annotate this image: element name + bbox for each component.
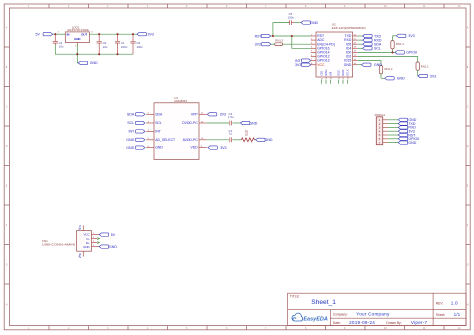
svg-text:AMG8833: AMG8833 (174, 99, 187, 103)
svg-text:MH2: MH2 (79, 252, 82, 258)
svg-text:MOSI: MOSI (342, 69, 345, 75)
net flag GPIO0 (PROG pin6) (398, 137, 419, 141)
net flag INT (GPIO13) (295, 59, 311, 63)
svg-text:GND: GND (249, 121, 257, 125)
svg-text:GND: GND (126, 146, 134, 150)
connector CN1 USB-CONN (42, 224, 100, 258)
svg-text:3V3: 3V3 (255, 43, 261, 47)
power flag 3V3 (LDO output) (137, 33, 154, 37)
capacitor C2 (230, 137, 232, 142)
svg-text:USB-CONN-AMINI: USB-CONN-AMINI (42, 243, 76, 247)
svg-text:3V3: 3V3 (148, 33, 154, 37)
wire C2 to R1 (232, 139, 241, 141)
junction dots output bus (98, 33, 134, 35)
wire IO15 net (358, 61, 381, 66)
value label C6 10u (103, 41, 108, 49)
svg-text:10u: 10u (103, 45, 108, 49)
svg-text:Sheet_1: Sheet_1 (311, 299, 336, 306)
svg-text:AVDD-PC: AVDD-PC (183, 138, 199, 142)
svg-text:VDD: VDD (191, 146, 199, 150)
value label C3 1.5u (228, 112, 234, 119)
svg-text:1/1: 1/1 (454, 312, 461, 317)
net flag RST (255, 34, 271, 38)
wire RST net (271, 23, 311, 49)
svg-text:100n: 100n (121, 45, 128, 49)
svg-text:GPIO0: GPIO0 (406, 51, 417, 55)
power flag 3V3 (PROG pin4) (398, 130, 415, 134)
svg-text:5V: 5V (36, 33, 41, 37)
svg-text:SCLK: SCLK (347, 69, 350, 76)
ground flag GND (PROG pin7) (398, 141, 417, 145)
svg-text:ESP-12F(ESP8266MOD): ESP-12F(ESP8266MOD) (332, 26, 366, 30)
svg-text:RN1.2: RN1.2 (385, 67, 393, 71)
svg-text:SCL: SCL (374, 47, 381, 51)
wire DVDD-PC net (207, 122, 229, 124)
svg-text:GND: GND (74, 37, 80, 41)
svg-text:G: G (467, 264, 469, 266)
svg-text:IO10: IO10 (338, 70, 341, 76)
ground flag GND (ESP) (358, 63, 383, 67)
svg-text:RN1.4: RN1.4 (396, 42, 404, 46)
svg-text:GND: GND (126, 138, 134, 142)
wire IO0 net (358, 49, 395, 53)
wire LDO GND down to ground (76, 44, 79, 63)
net flag INT (U1) (128, 130, 145, 134)
value label R1 20 (245, 130, 249, 137)
svg-text:GND: GND (109, 245, 117, 249)
net flag TXD (PROG pin2) (398, 122, 416, 126)
svg-text:2019-09-24: 2019-09-24 (349, 320, 375, 325)
junction IO0 (391, 51, 393, 53)
wire C5 to ground (295, 22, 301, 24)
svg-text:3V3: 3V3 (295, 63, 301, 67)
ground flag GND (AD_SELECT) (126, 138, 145, 142)
svg-text:3V3: 3V3 (430, 74, 436, 78)
capacitor C8 (130, 34, 135, 54)
svg-text:1.0: 1.0 (451, 301, 458, 306)
net flag SDA (U1) (127, 113, 145, 117)
power flag 3V3 (IO0 pull-up) (393, 34, 415, 38)
value label C4 10u (59, 41, 64, 49)
ground flag GND (IO15 pull-down) (385, 77, 405, 81)
ground flag GND (USB) (99, 245, 117, 249)
header PROG1 (375, 113, 388, 145)
ground flag GND (DVDD) (240, 121, 257, 125)
resistor RN1.4 (391, 36, 394, 49)
wire 5V to LDO IN (53, 33, 66, 35)
svg-text:Date:: Date: (333, 321, 341, 325)
wire bottom ground bus (55, 45, 133, 54)
resistor R1 (241, 138, 254, 142)
svg-text:IN: IN (67, 32, 70, 36)
power flag 5V (LDO input) (36, 33, 53, 37)
svg-text:CS0: CS0 (321, 70, 324, 75)
net flag RXD (358, 38, 382, 42)
junction at C4 (54, 33, 56, 35)
junction RST/GPIO16 (291, 35, 293, 37)
ground flag GND (C5) (301, 21, 319, 25)
svg-text:1u: 1u (229, 132, 233, 136)
power flag 3V3 (VCC) (295, 63, 311, 67)
svg-text:OUT: OUT (81, 32, 87, 36)
net flag GPIO0 (395, 51, 417, 55)
svg-text:IO9: IO9 (330, 71, 333, 76)
svg-text:VPP: VPP (191, 112, 199, 116)
svg-text:AD_SELECT: AD_SELECT (155, 138, 175, 142)
value label C8 100n (136, 41, 143, 49)
svg-text:Viper-7: Viper-7 (411, 320, 428, 325)
svg-text:3V3: 3V3 (408, 34, 414, 38)
svg-text:GND: GND (374, 63, 382, 67)
svg-text:GND: GND (155, 146, 163, 150)
wire C3 to ground (232, 122, 240, 124)
wire LDO OUT to 3V3 (89, 33, 137, 35)
power flag 3V3 (EN pull-up) (255, 43, 271, 47)
svg-text:RN1.1: RN1.1 (421, 65, 429, 69)
svg-text:1.5u: 1.5u (228, 115, 234, 119)
svg-text:7: 7 (379, 141, 381, 145)
resistor RN1.2 (379, 66, 384, 79)
svg-text:TITLE:: TITLE: (290, 294, 300, 298)
wire AVDD-PC net (207, 139, 229, 141)
svg-text:REV:: REV: (436, 302, 444, 306)
svg-text:3V3: 3V3 (220, 113, 226, 117)
svg-text:100n: 100n (136, 45, 143, 49)
svg-text:GND: GND (265, 138, 273, 142)
wire IO2 net (358, 57, 418, 62)
value label C2 1u (229, 129, 233, 136)
svg-text:GND: GND (90, 61, 98, 65)
net flag RXD (PROG pin3) (398, 126, 416, 130)
power flag 3V3 (IO2 pull-up) (418, 74, 436, 78)
power flag 3V3 (VDD) (208, 146, 227, 150)
resistor RN1.3 (271, 43, 311, 46)
module U2 ESP-12F (311, 22, 366, 83)
svg-text:INT: INT (128, 130, 135, 134)
junction RST/C5 (272, 35, 274, 37)
svg-text:GND: GND (344, 63, 352, 67)
svg-text:G: G (6, 264, 8, 266)
net flag RST (PROG pin5) (398, 133, 416, 137)
svg-text:GND: GND (397, 77, 405, 81)
svg-text:SCL: SCL (155, 121, 162, 125)
capacitor C1 (115, 34, 120, 54)
ground flag GND (LDO) (78, 61, 98, 65)
svg-text:SDA: SDA (155, 112, 163, 116)
svg-text:Your Company: Your Company (356, 311, 390, 316)
net flag SCL (IO4) (358, 47, 381, 51)
svg-text:Sheet:: Sheet: (436, 313, 446, 317)
ground flag GND (AVDD) (256, 138, 273, 142)
svg-text:SCL: SCL (127, 121, 134, 125)
svg-text:VCC: VCC (317, 63, 325, 67)
svg-text:MISO: MISO (325, 70, 328, 76)
resistor RN1.1 (416, 62, 419, 76)
title block (288, 293, 466, 325)
svg-text:MH1: MH1 (79, 224, 82, 230)
svg-text:Company:: Company: (333, 312, 348, 316)
svg-text:DVDD-PC: DVDD-PC (182, 121, 198, 125)
svg-text:INT: INT (155, 130, 160, 134)
ground flag GND (PROG pin1) (398, 118, 417, 122)
wire PROG1 pins to flags (388, 120, 398, 143)
power flag 5V (USB VCC) (99, 233, 116, 237)
net flag SCL (U1) (127, 121, 145, 125)
net flag SDA (IO5) (358, 43, 382, 47)
capacitor C6 (97, 34, 102, 54)
svg-text:RST: RST (255, 34, 263, 38)
wire R1 to ground (255, 139, 256, 141)
svg-text:GND: GND (408, 141, 416, 145)
svg-text:5V: 5V (111, 233, 116, 237)
svg-text:20: 20 (245, 133, 249, 137)
value label C5 100n (288, 12, 295, 19)
power flag 3V3 (VPP) (207, 113, 226, 117)
svg-text:MCP1700-3302E: MCP1700-3302E (67, 28, 89, 32)
capacitor C5 (ESP decoupling) (287, 20, 294, 25)
svg-text:EasyEDA: EasyEDA (303, 317, 327, 323)
regulator LDO1 MCP1700 (65, 25, 89, 46)
capacitor C3 (230, 121, 232, 126)
capacitor C4 (53, 34, 58, 45)
svg-text:GND: GND (83, 245, 89, 249)
svg-text:RN1.3: RN1.3 (275, 39, 283, 43)
junction dots bottom bus (76, 53, 118, 55)
svg-text:10u: 10u (59, 44, 64, 48)
svg-text:SDA: SDA (127, 113, 135, 117)
svg-text:GND: GND (310, 21, 318, 25)
ground flag GND (U1 GND) (126, 146, 145, 150)
net flag TXD (358, 34, 382, 38)
sensor U1 AMG8833 (146, 96, 207, 160)
value label C1 100n (121, 41, 128, 49)
svg-text:Drawn By:: Drawn By: (386, 321, 401, 325)
svg-text:3V3: 3V3 (220, 146, 226, 150)
svg-text:100n: 100n (288, 15, 295, 19)
